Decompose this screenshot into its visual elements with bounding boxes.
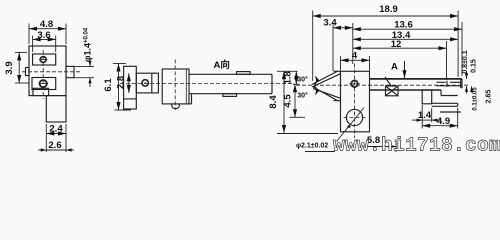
body — [341, 71, 370, 132]
dim 5.8 — [364, 146, 396, 148]
dim 6.1 — [113, 64, 131, 111]
dims right edge small — [466, 72, 468, 79]
svg-text:4: 4 — [352, 51, 358, 62]
dim 3.4 — [332, 23, 334, 71]
A arrow — [404, 61, 406, 78]
svg-text:www.hi1718.com: www.hi1718.com — [333, 135, 500, 157]
dim 18.9 — [277, 11, 472, 153]
svg-text:2.65: 2.65 — [486, 90, 493, 104]
svg-text:2.8: 2.8 — [116, 76, 127, 89]
small hole — [351, 81, 358, 88]
30deg leader arcs — [314, 76, 316, 85]
dim 4.9 — [457, 108, 459, 129]
dim 2.6 — [38, 149, 46, 151]
dim 12 — [446, 41, 448, 80]
dim 1.4 — [412, 119, 422, 121]
dim 8.4 — [277, 70, 298, 72]
centerline horizontal — [22, 71, 80, 73]
svg-text:0.1±0.05: 0.1±0.05 — [473, 87, 479, 111]
leader phi2.1 — [337, 108, 365, 142]
dim 3.9 — [15, 51, 27, 53]
dim 13.6 — [461, 22, 463, 76]
centerlines — [120, 83, 292, 85]
svg-text:30°: 30° — [297, 75, 308, 83]
svg-text:φ2.1±0.02: φ2.1±0.02 — [296, 143, 328, 150]
svg-text:0.8±0.1: 0.8±0.1 — [462, 50, 469, 73]
svg-text:12: 12 — [391, 39, 402, 50]
front view outline — [22, 46, 80, 122]
dim 3.6 — [32, 36, 34, 53]
svg-text:1.4: 1.4 — [418, 110, 432, 121]
svg-text:30°: 30° — [297, 91, 308, 99]
foot — [422, 90, 432, 104]
block — [162, 69, 189, 104]
centerlines — [296, 84, 470, 86]
dim 4.5 — [294, 84, 296, 117]
big hole — [346, 109, 362, 125]
svg-text:18.9: 18.9 — [379, 4, 398, 15]
centerline vertical — [42, 50, 44, 99]
svg-text:6.1: 6.1 — [103, 78, 114, 92]
dim 4.8 — [15, 24, 94, 153]
svg-text:4.9: 4.9 — [437, 116, 450, 127]
dim 13.4 — [353, 38, 458, 40]
svg-text:2.4: 2.4 — [49, 124, 63, 135]
blade — [370, 78, 463, 80]
svg-text:0.15: 0.15 — [471, 59, 478, 73]
dim 1.8 — [295, 71, 297, 84]
svg-text:A: A — [391, 62, 398, 73]
svg-text:4.8: 4.8 — [40, 19, 53, 30]
dim 4 — [340, 56, 342, 71]
dim phi1.4 — [75, 65, 95, 67]
dim 2.8 — [128, 73, 130, 93]
shaft — [189, 73, 272, 75]
crimp mark — [386, 86, 399, 96]
dim 2.4 — [45, 124, 47, 152]
svg-text:1.8: 1.8 — [283, 71, 294, 84]
svg-text:4.5: 4.5 — [283, 94, 294, 108]
svg-text:8.4: 8.4 — [268, 95, 279, 109]
svg-text:A向: A向 — [214, 59, 230, 71]
hole H1 — [40, 57, 46, 63]
svg-text:2.6: 2.6 — [48, 140, 61, 151]
watermark www.hi1718.com — [333, 135, 500, 157]
svg-text:3.6: 3.6 — [37, 30, 50, 41]
top view outline — [296, 64, 470, 139]
hole H2 — [40, 80, 47, 87]
hole side — [142, 80, 148, 86]
chamfer tip — [312, 71, 338, 84]
svg-text:3.4: 3.4 — [323, 17, 337, 28]
side view outline — [120, 59, 292, 110]
tab below block — [172, 104, 180, 109]
svg-text:3.9: 3.9 — [4, 61, 15, 74]
dimension texts — [4, 4, 493, 151]
